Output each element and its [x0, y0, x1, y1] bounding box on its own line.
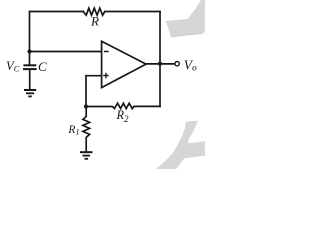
- op-amp minus sign: [104, 51, 109, 53]
- wire: non-inverting input: [86, 76, 102, 107]
- ground below R1: [80, 152, 93, 159]
- node: inverting input junction: [27, 49, 31, 53]
- wire: inverting input: [30, 51, 102, 53]
- resistor R: [83, 8, 105, 15]
- wire: op-amp output to terminal: [146, 63, 175, 65]
- svg-text:C: C: [38, 59, 47, 74]
- node: output junction: [158, 62, 162, 66]
- node: R1/R2 junction: [84, 104, 88, 108]
- wire: top feedback, left corner to resistor R: [30, 11, 84, 13]
- wire: right vertical (top corner down to R2): [159, 12, 161, 107]
- capacitor C: [23, 65, 37, 69]
- wire: top feedback, resistor R to right corner: [105, 11, 160, 13]
- wire: capacitor bottom to ground: [29, 69, 31, 90]
- op-amp plus sign: [103, 73, 109, 79]
- op-amp U1: [102, 41, 146, 87]
- ground below capacitor: [24, 90, 36, 96]
- resistor R1: [83, 107, 90, 153]
- wire: left vertical (top corner down to capacitor): [29, 12, 31, 65]
- svg-text:R: R: [90, 14, 99, 29]
- svg-text:R1: R1: [67, 124, 79, 137]
- terminal Vo open circle: [175, 62, 179, 66]
- resistor R2: [86, 103, 160, 108]
